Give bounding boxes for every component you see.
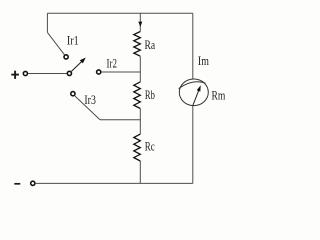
minus sign xyxy=(14,183,20,185)
wire Ir2 to middle bus xyxy=(102,71,141,73)
resistor Rc xyxy=(134,134,141,161)
meter Rm body (ellipse) xyxy=(179,79,208,106)
terminal - circle xyxy=(31,181,35,185)
meter scale arc xyxy=(179,82,206,89)
wire middle vertical top (with current arrow) xyxy=(139,13,141,31)
svg-text:Ir2: Ir2 xyxy=(107,56,118,71)
meter needle with arrow xyxy=(193,90,199,106)
node Ir2 contact circle xyxy=(97,70,101,74)
wire right vertical bottom xyxy=(192,106,194,184)
wire diagonal to Ir1 contact xyxy=(47,32,64,54)
svg-text:Ir1: Ir1 xyxy=(67,32,79,47)
svg-text:Rc: Rc xyxy=(145,139,155,154)
wire top horizontal xyxy=(47,12,192,14)
switch pole circle xyxy=(67,71,71,75)
wire middle vertical between Rb and Rc xyxy=(139,109,141,135)
wire middle vertical bottom xyxy=(139,161,141,183)
resistor Rb xyxy=(134,82,141,109)
plus sign xyxy=(11,71,19,79)
resistor Ra xyxy=(134,32,141,57)
wire right vertical top xyxy=(192,13,194,79)
svg-text:Ra: Ra xyxy=(145,37,156,52)
svg-text:Ir3: Ir3 xyxy=(84,92,96,107)
node Ir3 contact circle xyxy=(71,92,75,96)
wire left vertical drop xyxy=(46,13,48,32)
switch arm with arrow xyxy=(71,61,82,72)
wire bottom horizontal xyxy=(36,182,193,184)
arrow current direction down xyxy=(138,22,142,27)
terminal + circle xyxy=(23,71,27,75)
wire Ir3 horizontal to middle bus xyxy=(100,119,140,121)
wire from + terminal to pole xyxy=(28,73,66,75)
svg-text:Rm: Rm xyxy=(212,88,226,103)
svg-text:Im: Im xyxy=(198,53,209,68)
wire middle vertical between Ra and Rb xyxy=(139,56,141,82)
node Ir1 contact circle xyxy=(64,55,68,59)
wire Ir3 diagonal xyxy=(75,96,100,120)
svg-text:Rb: Rb xyxy=(145,87,155,102)
